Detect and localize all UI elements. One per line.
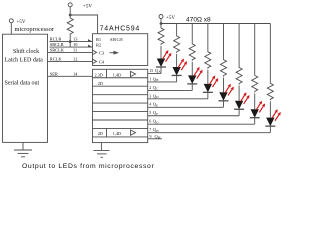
- wire LED cathode to line 4: [207, 92, 209, 99]
- wire Vcc to chip pin 16: [70, 15, 97, 34]
- svg-text:5: 5: [149, 110, 151, 115]
- resistor 470ohm #6: [236, 67, 242, 85]
- wire resistor to LED 4: [207, 70, 209, 84]
- svg-text:6: 6: [149, 119, 151, 124]
- LED emission arrows 6: [241, 92, 250, 104]
- microprocessor box: [3, 34, 48, 142]
- ground (chip): [93, 143, 109, 158]
- row line 8: [93, 136, 148, 138]
- wire output QB (pin 1): [148, 81, 177, 83]
- pin QH' stub (pin 9): [148, 138, 162, 140]
- svg-text:SRCLK: SRCLK: [50, 47, 65, 52]
- wire output QC (pin 2): [148, 89, 193, 91]
- wire RCLR (pin 13): [50, 41, 93, 43]
- LED D4: [203, 84, 213, 93]
- cell divider row1: [106, 69, 108, 77]
- pin label 2 QC: [149, 85, 158, 91]
- ground (microprocessor): [14, 142, 32, 156]
- wire SRCLR (pin 10): [50, 46, 93, 48]
- svg-text:10: 10: [73, 42, 78, 47]
- +5V terminal pull-up: [68, 3, 92, 10]
- svg-text:B: B: [156, 78, 158, 82]
- svg-text:SRG8: SRG8: [110, 37, 123, 42]
- wire branch 1 from rail to resistor: [160, 24, 162, 28]
- svg-text:SER: SER: [50, 71, 58, 76]
- op-amp U1 control block: [93, 34, 148, 66]
- wire LED cathode to line 7: [254, 118, 256, 125]
- svg-text:Serial data out: Serial data out: [5, 80, 40, 86]
- row line 1: [93, 77, 148, 79]
- svg-text:11: 11: [73, 47, 77, 52]
- LED D5: [218, 92, 228, 101]
- wire LED cathode to line 1: [160, 67, 162, 74]
- resistor 470ohm #2: [174, 35, 180, 53]
- wire resistor to LED 3: [191, 62, 193, 76]
- svg-text:15: 15: [149, 68, 153, 73]
- output block: [93, 69, 148, 142]
- row line 5: [93, 111, 148, 113]
- LED emission arrows 7: [256, 101, 265, 113]
- row line 4: [93, 102, 148, 104]
- resistor 470ohm #8: [267, 82, 273, 100]
- +5V terminal LED rail: [159, 15, 175, 22]
- wire branch 5 from rail to resistor: [222, 24, 224, 59]
- svg-text:SRCLR: SRCLR: [50, 42, 64, 47]
- svg-text:14: 14: [73, 71, 78, 76]
- resistor 470ohm #4: [205, 51, 211, 69]
- LED D1: [156, 59, 166, 68]
- wire resistor to LED 8: [269, 101, 271, 117]
- svg-text:R1: R1: [96, 37, 101, 42]
- wire branch 2 from rail to resistor: [176, 24, 178, 35]
- svg-text:4: 4: [149, 102, 151, 107]
- row line 2: [93, 85, 148, 87]
- row line 6: [93, 119, 148, 121]
- pin label 3 QD: [149, 93, 159, 99]
- svg-text:C: C: [156, 87, 158, 91]
- svg-text:2D: 2D: [98, 131, 103, 136]
- wire LED cathode to line 2: [176, 75, 178, 82]
- LED emission arrows 5: [225, 84, 234, 96]
- svg-text:Output to LEDs from microproce: Output to LEDs from microprocessor: [22, 163, 154, 170]
- svg-text:13: 13: [73, 37, 78, 42]
- wire resistor to LED 6: [238, 86, 240, 101]
- svg-text:7: 7: [149, 127, 151, 132]
- resistor 470ohm #1: [158, 27, 164, 45]
- wire SER (pin 14): [48, 75, 93, 77]
- node junction dot: [69, 14, 72, 17]
- +5V terminal microprocessor: [9, 19, 26, 25]
- wire LED cathode to line 3: [191, 84, 193, 91]
- wire branch 3 from rail to resistor: [191, 24, 193, 43]
- pin label 1 QB: [149, 76, 158, 82]
- row line 3: [93, 94, 148, 96]
- svg-text:74AHC594: 74AHC594: [100, 26, 141, 33]
- svg-text:470Ω x8: 470Ω x8: [186, 17, 211, 24]
- LED emission arrows 4: [209, 75, 218, 87]
- svg-text:9: 9: [150, 134, 152, 139]
- svg-text:1: 1: [149, 76, 151, 81]
- pin label 4 QE: [149, 102, 158, 108]
- shift right arrow: [110, 52, 116, 54]
- wire SRCLK (pin 11): [48, 51, 93, 53]
- wire output QA (pin 15): [148, 73, 161, 75]
- row line 7: [93, 127, 148, 129]
- svg-text:C4: C4: [99, 60, 105, 65]
- LED D3: [187, 75, 197, 84]
- resistor pull-up: [67, 17, 73, 42]
- dynamic indicator C4: [93, 59, 97, 63]
- wire from +5V terminal to microprocessor box: [10, 23, 12, 34]
- svg-text:H': H': [158, 136, 161, 140]
- wire branch 4 from rail to resistor: [207, 24, 209, 51]
- wire branch 7 from rail to resistor: [254, 24, 256, 75]
- pin label 5 QF: [149, 110, 158, 116]
- wire RCLK (pin 12): [48, 60, 93, 62]
- wire resistor to LED 5: [222, 78, 224, 93]
- wire LED cathode to line 5: [222, 101, 224, 108]
- svg-text:+5V: +5V: [166, 16, 175, 21]
- svg-text:3: 3: [149, 93, 151, 98]
- wire output QD (pin 3): [148, 98, 208, 100]
- wire output QG (pin 6): [148, 123, 255, 125]
- wire resistor to LED 1: [160, 46, 162, 59]
- svg-text:R2: R2: [96, 43, 101, 48]
- svg-text:F: F: [156, 112, 158, 116]
- svg-text:2D: 2D: [98, 81, 103, 86]
- svg-text:E: E: [156, 104, 158, 108]
- resistor 470ohm #7: [252, 74, 258, 92]
- node dot rail: [160, 22, 163, 25]
- LED emission arrows 8: [272, 109, 281, 121]
- wire resistor to LED 2: [176, 54, 178, 67]
- svg-text:Shift clock: Shift clock: [13, 48, 39, 55]
- wire terminal to rail: [160, 19, 162, 24]
- svg-text:Latch LED data: Latch LED data: [5, 57, 44, 63]
- svg-text:microprocessor: microprocessor: [15, 26, 55, 33]
- wire branch 8 from rail to resistor: [269, 24, 271, 83]
- wire resistor to LED 7: [254, 93, 256, 109]
- generated branches, output lines and pin labels: [148, 24, 281, 133]
- wire resistor to SRCLR line: [69, 42, 71, 48]
- LED emission arrows 3: [194, 67, 203, 79]
- svg-text:2: 2: [149, 85, 151, 90]
- wire LED cathode to line 6: [238, 109, 240, 116]
- dynamic indicator C3: [93, 50, 97, 54]
- svg-text:RCLR: RCLR: [50, 37, 62, 42]
- resistor 470ohm #3: [189, 43, 195, 61]
- svg-text:C3: C3: [99, 51, 105, 56]
- svg-text:+5V: +5V: [83, 5, 92, 10]
- polarity indicator pin 13: [88, 39, 93, 42]
- LED D8: [265, 118, 275, 127]
- svg-text:+5V: +5V: [17, 20, 26, 25]
- resistor 470ohm #5: [220, 59, 226, 77]
- LED D7: [250, 109, 260, 118]
- LED emission arrows 1: [163, 50, 172, 62]
- LED emission arrows 2: [178, 58, 187, 70]
- pin label 7 QH: [149, 127, 159, 133]
- wire branch 6 from rail to resistor: [238, 24, 240, 67]
- wire output QH (pin 7): [148, 132, 271, 134]
- postponed output triangle row8: [131, 130, 136, 135]
- polarity indicator pin 10: [88, 45, 93, 48]
- LED D6: [234, 101, 244, 110]
- pin label 15 QA: [149, 68, 161, 74]
- svg-text:1,4D: 1,4D: [113, 131, 121, 137]
- LED D2: [172, 67, 182, 76]
- wire terminal down to junction: [69, 7, 71, 17]
- wire output QE (pin 4): [148, 106, 224, 108]
- svg-text:12: 12: [73, 56, 77, 61]
- cell divider row8: [106, 128, 108, 136]
- svg-text:RCLK: RCLK: [50, 56, 63, 61]
- pin label 6 QG: [149, 119, 159, 125]
- wire LED cathode to line 8: [269, 126, 271, 132]
- wire +5V rail: [161, 23, 270, 25]
- wire output QF (pin 5): [148, 115, 239, 117]
- node dot on RCLR line: [69, 40, 72, 43]
- postponed output triangle row1: [131, 71, 136, 76]
